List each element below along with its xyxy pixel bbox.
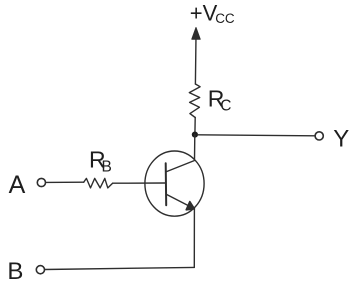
wire node to Y terminal	[198, 135, 315, 136]
wire RC to node	[194, 118, 196, 135]
terminal B	[36, 266, 44, 274]
transistor Q1	[145, 151, 204, 216]
wire collector	[166, 135, 195, 172]
svg-text:C: C	[220, 98, 231, 115]
wire RB to base	[113, 182, 166, 184]
resistor RC	[189, 84, 200, 118]
terminal Y	[315, 132, 323, 140]
svg-text:+V: +V	[190, 0, 218, 25]
wire B to emitter riser	[45, 267, 195, 269]
svg-text:B: B	[102, 158, 112, 175]
terminal A	[37, 178, 45, 186]
svg-text:A: A	[9, 171, 26, 199]
power +VCC arrow	[192, 28, 200, 85]
wire A to RB	[46, 181, 84, 183]
wire emitter to B rail	[193, 209, 195, 268]
resistor RB	[84, 178, 113, 188]
svg-text:B: B	[7, 258, 23, 285]
svg-text:CC: CC	[215, 11, 235, 26]
node (collector junction)	[192, 132, 198, 138]
svg-text:Y: Y	[333, 126, 349, 153]
